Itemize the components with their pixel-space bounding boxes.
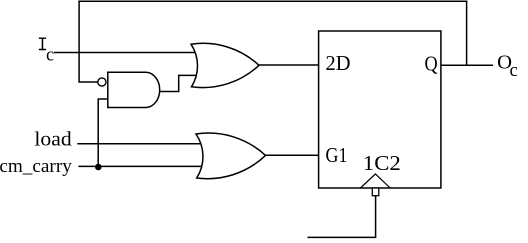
svg-text:c: c <box>46 45 54 66</box>
wire: Ic input to OR1 <box>54 52 196 54</box>
wire: clock input <box>308 196 376 238</box>
wire: OR2 output to G1 <box>265 154 320 156</box>
wire: Q output to Oc <box>440 64 493 66</box>
svg-text:c: c <box>510 60 518 81</box>
AND gate with inverted input <box>108 72 160 107</box>
svg-text:Q: Q <box>425 51 439 75</box>
inverter bubble on AND input <box>98 78 106 86</box>
wire: feedback into AND inverted input <box>78 81 99 83</box>
junction: cm_carry node dot <box>95 164 102 171</box>
wire: load input to OR2 <box>77 143 203 145</box>
svg-text:G1: G1 <box>326 144 348 167</box>
clock pin stub <box>372 188 379 196</box>
wire: feedback right vertical <box>466 1 468 66</box>
svg-text:1C2: 1C2 <box>363 151 401 175</box>
clock dynamic-input triangle <box>360 174 390 188</box>
wire: OR1 output to 2D <box>258 64 319 66</box>
flip-flop box U1 <box>319 31 441 188</box>
node label I (input Ic) <box>39 38 46 51</box>
wire: cm_carry input to OR2 <box>78 165 204 167</box>
wire: cm_carry junction up to AND lower input <box>98 99 108 166</box>
wire: AND output routed to OR1 lower input <box>159 75 198 91</box>
OR gate bottom (OR2) <box>196 133 266 179</box>
svg-text:2D: 2D <box>326 52 351 75</box>
svg-text:cm_carry: cm_carry <box>0 156 72 177</box>
OR gate top (OR1) <box>191 43 259 87</box>
wire: feedback left vertical <box>78 1 80 82</box>
wire: feedback top horizontal <box>78 0 467 2</box>
svg-text:load: load <box>34 129 71 151</box>
